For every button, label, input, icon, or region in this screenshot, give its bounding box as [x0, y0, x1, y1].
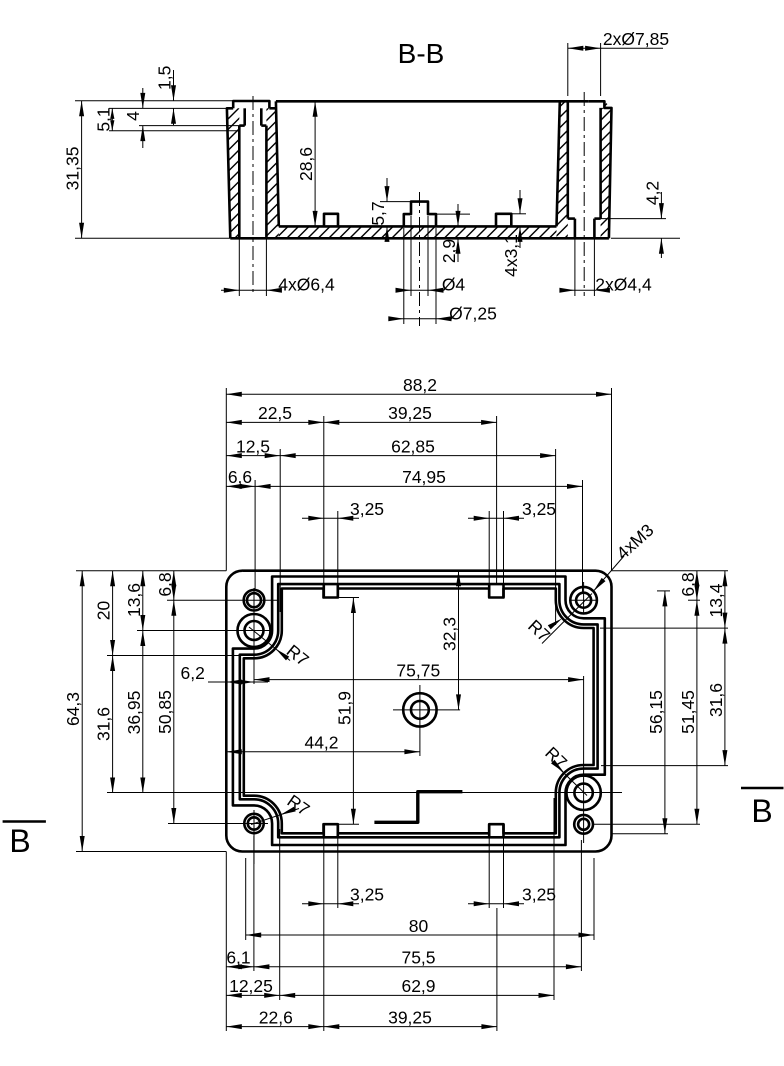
dim 13,4 — [724, 571, 726, 766]
dim O4 pillar — [410, 216, 412, 296]
svg-text:32,3: 32,3 — [440, 617, 460, 651]
dim 3,25 bottom-left — [302, 903, 359, 905]
dim 4xO6,4 — [238, 238, 240, 296]
dim 64,3 — [81, 571, 83, 852]
svg-text:75,5: 75,5 — [401, 948, 435, 968]
svg-text:22,6: 22,6 — [259, 1007, 293, 1027]
dim 62,9 — [280, 993, 296, 998]
svg-text:31,35: 31,35 — [63, 147, 83, 191]
dim 32,3 — [458, 571, 460, 710]
TR circle vertical centerline — [583, 582, 585, 614]
svg-text:28,6: 28,6 — [296, 147, 316, 181]
dim 4 — [139, 125, 245, 127]
svg-text:12,25: 12,25 — [229, 976, 273, 996]
ext line/centerline y=792.5 across — [107, 792, 622, 794]
section: right wall outline — [557, 101, 560, 226]
svg-text:88,2: 88,2 — [403, 375, 437, 395]
svg-text:2xØ7,85: 2xØ7,85 — [603, 29, 669, 49]
plan: cavity rim outer line — [240, 584, 598, 837]
plan: TL corner boss — [238, 614, 271, 647]
plan: BR lid-screw hole — [574, 815, 593, 834]
plan: BL M3 hole — [244, 814, 263, 833]
section: lid lip left wall — [233, 101, 269, 108]
BR boss vertical centerline — [583, 676, 585, 843]
dim 75,75 — [254, 679, 584, 681]
svg-text:13,6: 13,6 — [124, 583, 144, 617]
dim 31,6 right — [722, 628, 727, 644]
section: floor — [279, 225, 557, 228]
ext lines right — [612, 570, 729, 572]
dim 36,95 — [140, 631, 145, 647]
svg-text:4,2: 4,2 — [642, 181, 662, 205]
svg-text:2xØ4,4: 2xØ4,4 — [595, 275, 652, 295]
svg-text:R7: R7 — [541, 743, 571, 773]
svg-text:R7: R7 — [524, 616, 554, 646]
svg-text:51,45: 51,45 — [678, 690, 698, 734]
dim 39,25 — [324, 420, 340, 425]
dim 4,2 — [601, 218, 666, 220]
dim 5,7 — [380, 201, 411, 203]
svg-text:3,25: 3,25 — [350, 885, 384, 905]
centerline right screw channel — [583, 92, 585, 296]
svg-text:Ø4: Ø4 — [442, 275, 466, 295]
dim 31,35 — [75, 100, 233, 102]
section: right wall screw boss channel — [566, 101, 569, 218]
svg-text:56,15: 56,15 — [646, 690, 666, 734]
dim 50,85 — [171, 600, 176, 616]
dim 3,25 top-right — [468, 517, 524, 519]
centerline left screw hole — [252, 96, 254, 296]
dim 20 — [112, 571, 114, 793]
label R7 BL radius leader — [251, 809, 299, 825]
dim 4x3,1 — [511, 213, 526, 215]
svg-text:20: 20 — [94, 601, 114, 621]
section: left wall screw hole — [243, 108, 246, 125]
dim 88,2 — [226, 393, 611, 395]
svg-text:75,75: 75,75 — [396, 660, 440, 680]
dim 6,8 left — [173, 571, 175, 824]
svg-text:B-B: B-B — [398, 38, 445, 69]
dim 13,6 — [142, 571, 144, 793]
svg-text:6,8: 6,8 — [678, 572, 698, 596]
svg-text:74,95: 74,95 — [402, 467, 446, 487]
TL boss vertical centerline — [253, 588, 255, 684]
svg-text:39,25: 39,25 — [388, 1007, 432, 1027]
svg-text:62,9: 62,9 — [401, 976, 435, 996]
dim 51,9 — [338, 597, 359, 599]
section: center PCB pillar — [404, 202, 436, 227]
dim 12,5 — [226, 455, 555, 457]
label 4xM3 with leader — [593, 556, 624, 591]
svg-text:5,1: 5,1 — [94, 107, 114, 131]
plan: outer contour — [226, 571, 611, 852]
dim 5,1 — [109, 107, 233, 109]
svg-text:Ø7,25: Ø7,25 — [449, 304, 497, 324]
section: cavity rim top edge — [276, 100, 588, 103]
svg-text:64,3: 64,3 — [63, 692, 83, 726]
dim 1,5 — [173, 70, 175, 101]
svg-text:39,25: 39,25 — [388, 403, 432, 423]
dim 74,95 — [255, 484, 271, 489]
label R7 TL radius leader — [249, 627, 290, 661]
ext lines left — [76, 570, 226, 572]
dim 44,2 — [226, 751, 420, 753]
BL circle vertical centerline — [253, 810, 255, 864]
label R7 BR radius leader — [553, 763, 587, 796]
ext lines top — [225, 388, 227, 571]
dim 6,2 — [208, 681, 268, 683]
label R7 TR radius leader — [542, 594, 592, 644]
svg-text:3,25: 3,25 — [350, 499, 384, 519]
dim 22,5 — [226, 421, 496, 423]
section: left wall outline — [227, 108, 233, 238]
svg-text:51,9: 51,9 — [334, 691, 354, 725]
svg-text:6,6: 6,6 — [228, 467, 252, 487]
dim 6,8 right — [696, 571, 698, 825]
svg-text:B: B — [9, 823, 30, 859]
svg-text:12,5: 12,5 — [236, 436, 270, 456]
svg-text:2,9: 2,9 — [439, 239, 459, 263]
svg-text:4: 4 — [123, 111, 143, 121]
svg-text:5,7: 5,7 — [368, 201, 388, 225]
section: floor boss right (3.1 high) — [496, 214, 511, 227]
svg-text:13,4: 13,4 — [706, 583, 726, 617]
dim 22,6 — [226, 1026, 497, 1028]
dim 56,15 — [664, 591, 666, 834]
svg-text:3,25: 3,25 — [522, 885, 556, 905]
dim 3,25 bottom-right — [468, 903, 524, 905]
plan: TR M3 boss hole 4xM3 — [570, 587, 597, 614]
dim 12,25 — [226, 994, 554, 996]
svg-text:R7: R7 — [284, 790, 314, 819]
dim 2xO7,85 — [567, 43, 569, 96]
dim O7,25 — [403, 228, 405, 324]
dim 62,85 — [280, 453, 296, 458]
svg-text:4xM3: 4xM3 — [612, 520, 657, 563]
section: floor boss left (3.1 high) — [324, 214, 338, 227]
svg-text:3,25: 3,25 — [522, 499, 556, 519]
dim 31,6 left — [110, 656, 115, 672]
plan: TL lid-screw hole — [244, 590, 265, 611]
section marker B right — [741, 787, 784, 790]
section plane B-B step trace — [374, 792, 462, 823]
svg-text:44,2: 44,2 — [304, 733, 338, 753]
dim 2xO4,4 — [574, 238, 576, 296]
ext lines bottom — [225, 852, 227, 1032]
svg-text:31,6: 31,6 — [94, 707, 114, 741]
svg-text:6,1: 6,1 — [226, 948, 250, 968]
svg-text:6,8: 6,8 — [155, 572, 175, 596]
dim 6,1 — [226, 966, 581, 968]
dim 2,9 — [457, 204, 459, 226]
dim 28,6 — [314, 101, 316, 226]
dim 3,25 top-left — [302, 517, 359, 519]
svg-text:1,5: 1,5 — [155, 66, 175, 90]
dim 6,6 — [226, 485, 582, 487]
svg-text:62,85: 62,85 — [391, 436, 435, 456]
plan: inner contour C2 — [233, 577, 605, 846]
svg-text:22,5: 22,5 — [258, 403, 292, 423]
plan: notch sides thick — [322, 584, 325, 597]
svg-text:B: B — [751, 793, 772, 829]
dim 75,5 — [254, 964, 270, 969]
svg-text:50,85: 50,85 — [155, 690, 175, 734]
svg-text:31,6: 31,6 — [706, 683, 726, 717]
svg-text:6,2: 6,2 — [180, 663, 204, 683]
plan: center pillar hole — [403, 693, 436, 726]
dim 51,45 — [694, 600, 699, 616]
plan: BR corner boss — [566, 776, 600, 810]
plan: cavity rim inner line with notches — [244, 589, 594, 834]
svg-text:4x3,1: 4x3,1 — [501, 234, 521, 277]
dim 80 — [246, 934, 594, 936]
dim 39,25 bottom — [324, 1024, 340, 1029]
svg-text:4xØ6,4: 4xØ6,4 — [278, 275, 335, 295]
svg-text:80: 80 — [409, 916, 429, 936]
section marker B left — [3, 820, 46, 823]
centerline center pillar — [419, 192, 421, 326]
svg-text:36,95: 36,95 — [124, 691, 144, 735]
svg-text:R7: R7 — [283, 641, 313, 671]
